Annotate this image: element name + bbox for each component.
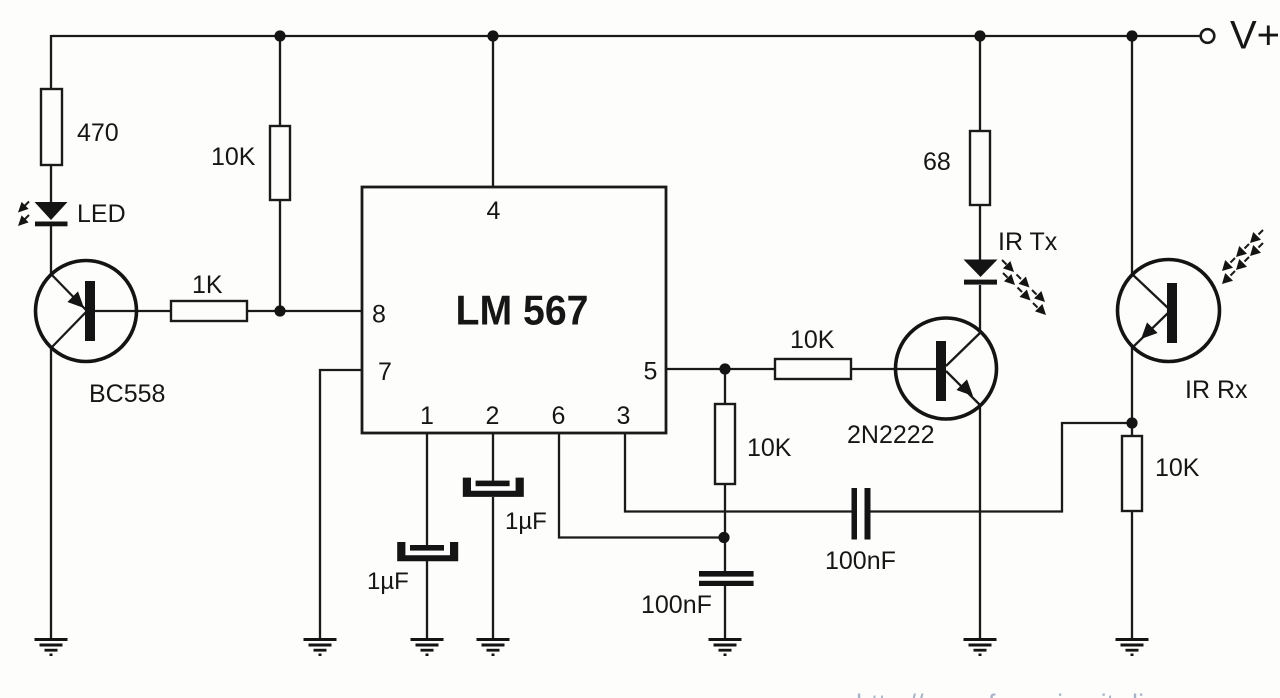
svg-text:470: 470 bbox=[77, 119, 119, 147]
svg-text:BC558: BC558 bbox=[89, 380, 165, 408]
svg-text:100nF: 100nF bbox=[825, 547, 896, 575]
svg-text:8: 8 bbox=[372, 301, 386, 329]
svg-text:IR Rx: IR Rx bbox=[1185, 376, 1248, 404]
svg-text:1µF: 1µF bbox=[367, 568, 409, 595]
svg-text:10K: 10K bbox=[1155, 454, 1200, 482]
svg-text:6: 6 bbox=[552, 402, 566, 430]
svg-text:5: 5 bbox=[644, 358, 658, 386]
svg-text:1K: 1K bbox=[192, 271, 223, 299]
svg-text:7: 7 bbox=[378, 358, 392, 386]
svg-text:4: 4 bbox=[487, 197, 501, 225]
svg-text:68: 68 bbox=[923, 148, 951, 176]
svg-text:V+: V+ bbox=[1230, 14, 1280, 58]
svg-text:1µF: 1µF bbox=[505, 508, 547, 535]
svg-text:htto://www.free-circuit-diagra: htto://www.free-circuit-diagrams.com bbox=[856, 689, 1280, 698]
svg-text:IR Tx: IR Tx bbox=[998, 228, 1058, 256]
svg-text:LM 567: LM 567 bbox=[456, 287, 589, 334]
svg-text:10K: 10K bbox=[790, 326, 835, 354]
svg-text:10K: 10K bbox=[747, 434, 792, 462]
svg-text:1: 1 bbox=[420, 402, 434, 430]
svg-text:3: 3 bbox=[617, 402, 631, 430]
svg-text:2N2222: 2N2222 bbox=[847, 421, 935, 449]
svg-text:LED: LED bbox=[77, 200, 126, 228]
svg-text:2: 2 bbox=[486, 402, 500, 430]
svg-text:10K: 10K bbox=[211, 143, 256, 171]
svg-text:100nF: 100nF bbox=[641, 591, 712, 619]
